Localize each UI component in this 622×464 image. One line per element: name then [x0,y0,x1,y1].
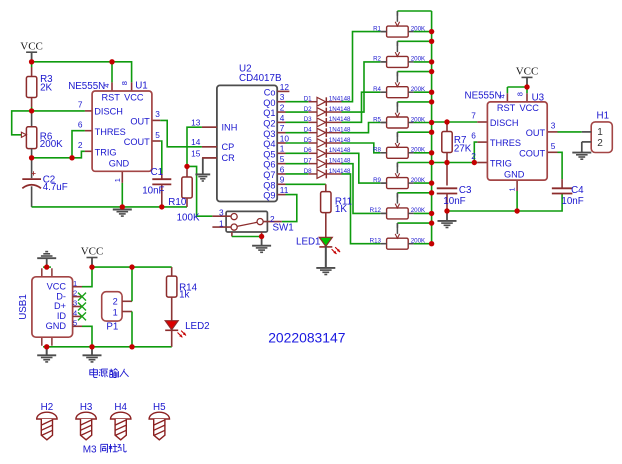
svg-text:3: 3 [219,207,224,217]
svg-text:Q1: Q1 [263,108,275,118]
svg-text:H4: H4 [114,402,127,413]
svg-text:D5: D5 [304,137,312,144]
svg-text:+: + [31,168,36,178]
svg-text:Q8: Q8 [263,180,275,190]
svg-text:12: 12 [280,82,290,92]
svg-text:R13: R13 [370,238,382,245]
svg-text:P1: P1 [106,322,118,333]
svg-text:H2: H2 [41,402,54,413]
svg-text:COUT: COUT [124,137,150,147]
svg-text:4: 4 [102,84,111,88]
svg-text:7: 7 [78,99,83,109]
svg-text:VCC: VCC [20,40,43,52]
svg-text:14: 14 [191,137,201,147]
svg-text:C4: C4 [571,185,584,196]
svg-text:LED2: LED2 [185,321,210,332]
svg-text:200K: 200K [40,139,63,150]
svg-text:RST: RST [102,92,121,102]
svg-text:R4: R4 [373,86,381,93]
svg-text:LED1: LED1 [296,236,321,247]
svg-text:CP: CP [222,142,235,152]
svg-text:D3: D3 [304,116,312,123]
svg-text:3: 3 [280,92,285,102]
svg-text:10nF: 10nF [142,185,164,196]
svg-text:4.7uF: 4.7uF [43,182,68,193]
svg-text:INH: INH [222,123,238,133]
svg-text:10nF: 10nF [443,196,465,207]
svg-text:THRES: THRES [95,127,126,137]
svg-text:5: 5 [73,318,77,327]
svg-text:R5: R5 [373,116,381,123]
svg-text:Q7: Q7 [263,170,275,180]
svg-text:27K: 27K [454,144,472,155]
svg-text:R8: R8 [373,147,381,154]
svg-text:D7: D7 [304,157,312,164]
svg-text:DISCH: DISCH [94,107,123,117]
svg-text:D+: D+ [54,301,66,311]
svg-text:1: 1 [597,127,603,138]
svg-text:2: 2 [78,140,83,150]
svg-text:200K: 200K [411,25,426,32]
svg-text:5: 5 [280,154,285,164]
svg-text:200K: 200K [411,207,426,214]
svg-text:D6: D6 [304,147,312,154]
svg-text:TRIG: TRIG [95,148,117,158]
svg-text:DISCH: DISCH [490,118,519,128]
svg-text:2: 2 [280,102,285,112]
svg-text:VCC: VCC [47,281,67,291]
svg-text:GND: GND [504,170,525,180]
svg-text:2K: 2K [40,82,52,93]
svg-text:CD4017B: CD4017B [239,73,282,84]
svg-text:10nF: 10nF [561,196,583,207]
svg-text:Q3: Q3 [263,129,275,139]
svg-text:GND: GND [46,321,67,331]
svg-text:U3: U3 [532,92,545,103]
svg-text:1: 1 [73,279,77,288]
svg-text:NE555N: NE555N [465,91,502,102]
svg-text:1k: 1k [179,290,189,301]
svg-text:Q9: Q9 [263,191,275,201]
svg-text:H3: H3 [80,402,93,413]
svg-text:SW1: SW1 [273,222,294,233]
svg-text:4: 4 [497,94,506,98]
svg-text:2: 2 [471,151,476,161]
svg-text:D-: D- [56,291,66,301]
svg-text:200K: 200K [411,116,426,123]
svg-text:13: 13 [191,118,201,128]
svg-text:Q0: Q0 [263,98,275,108]
svg-text:200K: 200K [411,147,426,154]
svg-text:1K: 1K [335,204,347,215]
svg-text:VCC: VCC [124,92,144,102]
svg-text:200K: 200K [411,86,426,93]
svg-text:9: 9 [280,175,285,185]
svg-text:3: 3 [551,121,556,131]
svg-text:1: 1 [219,218,224,228]
svg-text:CR: CR [222,153,236,163]
svg-text:6: 6 [471,131,476,141]
svg-text:Q2: Q2 [263,118,275,128]
svg-text:M3: M3 [83,444,97,455]
svg-text:R12: R12 [370,207,382,214]
svg-text:11: 11 [280,185,289,195]
svg-text:200K: 200K [411,56,426,63]
svg-text:VCC: VCC [519,103,539,113]
svg-text:5: 5 [551,141,556,151]
svg-text:H5: H5 [153,402,166,413]
svg-text:1: 1 [113,178,122,182]
svg-text:200K: 200K [411,177,426,184]
svg-text:R10: R10 [168,197,187,208]
svg-text:C3: C3 [459,185,472,196]
svg-text:1: 1 [280,144,285,154]
svg-text:COUT: COUT [519,149,545,159]
svg-text:NE555N: NE555N [68,81,105,92]
svg-text:GND: GND [109,158,130,168]
svg-text:RST: RST [497,103,516,113]
svg-text:D4: D4 [304,126,312,133]
svg-text:Q6: Q6 [263,160,275,170]
svg-text:8: 8 [516,92,525,96]
svg-text:6: 6 [78,119,83,129]
svg-text:VCC: VCC [516,66,539,78]
svg-text:OUT: OUT [526,128,546,138]
svg-text:1: 1 [113,308,118,318]
svg-text:3: 3 [155,109,160,119]
svg-text:R1: R1 [373,25,381,32]
svg-text:USB1: USB1 [18,294,29,320]
svg-text:1: 1 [508,187,517,191]
svg-text:4: 4 [73,309,77,318]
svg-text:2: 2 [73,289,77,298]
svg-text:U1: U1 [135,80,148,91]
svg-text:2022083147: 2022083147 [268,330,346,346]
svg-text:ID: ID [57,311,67,321]
svg-text:7: 7 [280,123,285,133]
svg-text:Q4: Q4 [263,139,275,149]
svg-text:H1: H1 [597,110,610,121]
svg-text:C1: C1 [151,167,164,178]
svg-text:2: 2 [113,297,118,307]
svg-text:D1: D1 [304,96,312,103]
svg-text:R9: R9 [373,177,381,184]
svg-text:R2: R2 [373,56,381,63]
svg-text:2: 2 [597,138,603,149]
svg-text:4: 4 [280,113,285,123]
svg-text:200K: 200K [411,238,426,245]
svg-text:5: 5 [155,130,160,140]
svg-text:VCC: VCC [81,246,104,258]
svg-text:7: 7 [471,111,476,121]
svg-text:8: 8 [120,81,129,85]
svg-text:D2: D2 [304,106,312,113]
svg-text:15: 15 [191,148,201,158]
svg-text:6: 6 [280,164,285,174]
svg-text:10: 10 [280,133,290,143]
svg-text:THRES: THRES [490,138,521,148]
svg-text:100K: 100K [177,213,200,224]
svg-text:OUT: OUT [130,117,150,127]
svg-text:D8: D8 [304,168,312,175]
svg-text:TRIG: TRIG [490,159,512,169]
svg-text:Q5: Q5 [263,149,275,159]
svg-text:Co: Co [264,88,276,98]
svg-text:3: 3 [73,299,77,308]
